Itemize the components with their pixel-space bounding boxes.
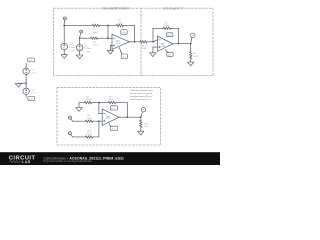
svg-text:1 Vpp: 1 Vpp bbox=[69, 50, 75, 52]
node F2 fb corner junction bbox=[178, 43, 180, 45]
ground GND8 bbox=[138, 131, 144, 135]
resistor R4 bbox=[140, 41, 147, 43]
wire V2 stem bbox=[79, 38, 81, 44]
wire fb corner down to output bbox=[126, 103, 128, 118]
node H supply midpoint junction bbox=[25, 82, 27, 84]
wire midpoint to ground bbox=[19, 82, 27, 84]
comment text block bottom box bbox=[130, 89, 154, 101]
wire V4 to supply flag bbox=[25, 95, 27, 98]
node I junction bbox=[98, 102, 100, 104]
svg-text:tensao venda: ab. param: tensao venda: ab. param bbox=[130, 92, 152, 95]
wire R6 to ground bbox=[190, 59, 192, 62]
ground GND4 bbox=[150, 53, 156, 57]
wire node B to R2 bbox=[80, 37, 91, 39]
op-amp OA1 bbox=[112, 34, 129, 49]
OA2 V+ power flag +2.5V bbox=[165, 33, 173, 39]
node D junction bbox=[107, 37, 109, 39]
node G output junction bbox=[190, 43, 192, 45]
wire OA2 output bbox=[173, 43, 191, 45]
wire flag to V3 bbox=[25, 63, 27, 68]
svg-text:OP37: OP37 bbox=[160, 46, 166, 48]
wire output to R11 bbox=[140, 117, 142, 120]
node J junction bbox=[98, 120, 100, 122]
wire R5 to fb2 corner bbox=[171, 27, 179, 29]
node flag A (input 1) bbox=[63, 17, 66, 25]
wire flag D to R10 bbox=[72, 136, 85, 138]
resistor R7 bbox=[85, 101, 92, 103]
dashed box B "circuit gain" bbox=[141, 8, 213, 75]
wire flag C to R9 bbox=[72, 120, 85, 122]
svg-text:OP37: OP37 bbox=[116, 43, 122, 45]
resistor R11 load bbox=[140, 120, 142, 127]
wire OA2 + input to ground bbox=[153, 47, 158, 53]
wire node I down to inverting input bbox=[99, 103, 102, 114]
wire V2 to ground bbox=[79, 51, 81, 55]
svg-text:750Ω: 750Ω bbox=[141, 48, 147, 50]
supply flag +2.5V callout bbox=[26, 58, 34, 63]
wire OA1 output to R4 bbox=[129, 41, 139, 43]
voltage source V2 bbox=[76, 44, 83, 51]
resistor R8 feedback bbox=[108, 101, 115, 103]
wire R4 to OA2 inverting input bbox=[147, 41, 153, 43]
resistor R10 bbox=[86, 136, 93, 138]
dashed box A "Bandwidth limited" bbox=[54, 8, 142, 75]
svg-text:Bandwidth limited: Bandwidth limited bbox=[103, 6, 129, 10]
node flag OUT2 bbox=[141, 108, 146, 117]
wire R11 to ground bbox=[140, 128, 142, 132]
OA1 V- power flag -2.5V bbox=[119, 47, 127, 58]
node C junction (summing fb tap) bbox=[107, 25, 109, 27]
node flag VOUT bbox=[191, 33, 195, 43]
svg-text:750Ω: 750Ω bbox=[87, 134, 93, 136]
svg-text:50Ω: 50Ω bbox=[193, 56, 197, 58]
svg-text:1 Vpp: 1 Vpp bbox=[84, 51, 90, 53]
node flag D (bottom in 2) bbox=[68, 132, 72, 137]
ground GND5 bbox=[188, 62, 194, 66]
OA3 V- power flag -2.5V bbox=[109, 123, 118, 131]
wire fb2 top run bbox=[153, 27, 163, 29]
wire fb2 riser bbox=[152, 28, 154, 41]
node A junction bbox=[63, 25, 65, 27]
node K fb junction bbox=[127, 116, 129, 118]
wire node C down to inverting node bbox=[107, 25, 109, 38]
svg-text:Subtador electronico para: Subtador electronico para bbox=[130, 89, 154, 92]
wire R7 to node I bbox=[92, 102, 109, 104]
resistor R3 feedback bbox=[116, 24, 123, 26]
svg-text:50Ω: 50Ω bbox=[144, 126, 148, 128]
resistor R5 feedback 2 bbox=[163, 27, 170, 29]
svg-text:2.5 V: 2.5 V bbox=[31, 93, 37, 95]
op-amp OA2 bbox=[157, 36, 172, 51]
wire OA3 output bbox=[119, 116, 141, 118]
footer bar bbox=[0, 152, 220, 165]
OA3 V+ power flag +2.5V bbox=[109, 106, 118, 112]
svg-text:LAB: LAB bbox=[22, 160, 31, 164]
node B junction bbox=[79, 37, 81, 39]
wire R2 to op-amp inverting input bbox=[98, 37, 112, 39]
svg-text:2.5 V: 2.5 V bbox=[31, 73, 37, 75]
ground GND6 bbox=[15, 83, 21, 87]
svg-text:750Ω: 750Ω bbox=[117, 22, 123, 24]
svg-text:750Ω: 750Ω bbox=[108, 99, 114, 101]
footer logo LAB bbox=[9, 160, 21, 162]
node flag B (input 2) bbox=[80, 30, 83, 37]
svg-text:750Ω: 750Ω bbox=[93, 32, 99, 34]
wire V3 to midpoint bbox=[25, 74, 27, 88]
wire V1 stem bbox=[63, 25, 65, 43]
svg-text:http://circuitlab.com/c/9pcba6: http://circuitlab.com/c/9pcba6u8e3qt bbox=[44, 159, 92, 163]
wire R10 up to + node bbox=[93, 121, 99, 137]
svg-text:configurar ajuste (IN) da: configurar ajuste (IN) da bbox=[130, 95, 152, 98]
resistor R1 bbox=[92, 24, 99, 26]
ground GND3 bbox=[107, 50, 113, 54]
resistor R6 load bbox=[190, 52, 192, 59]
wire gnd riser to top row bbox=[79, 103, 85, 108]
ground GND1 bbox=[61, 55, 67, 59]
wire R9 to + input bbox=[93, 120, 103, 122]
wire fb2 corner down bbox=[177, 28, 179, 43]
OA1 V+ power flag +2.5V bbox=[119, 30, 127, 37]
resistor R9 bbox=[86, 120, 93, 122]
voltage source V1 bbox=[61, 43, 68, 50]
ground GND7 (fb divider) bbox=[76, 108, 82, 112]
voltage source V3 bbox=[23, 68, 29, 74]
node L output junction bbox=[140, 116, 142, 118]
dashed box C bottom subtractor bbox=[57, 88, 161, 145]
svg-text:OP37: OP37 bbox=[106, 118, 112, 120]
ground GND2 bbox=[76, 55, 82, 59]
node F junction fb2 tap bbox=[152, 41, 154, 43]
OA2 V- power flag -2.5V bbox=[165, 49, 173, 56]
node E output OA1 junction bbox=[134, 41, 136, 43]
op-amp OA3 bbox=[102, 109, 119, 125]
svg-text:750Ω: 750Ω bbox=[92, 45, 98, 47]
wire output to RL bbox=[190, 44, 192, 52]
supply flag -2.5V callout bbox=[26, 97, 34, 101]
svg-text:750Ω: 750Ω bbox=[164, 25, 170, 27]
wire R3 to corner bbox=[123, 24, 134, 26]
svg-text:750Ω: 750Ω bbox=[86, 99, 92, 101]
voltage source V4 bbox=[23, 88, 29, 94]
wire V1 to ground bbox=[63, 50, 65, 55]
svg-text:750Ω: 750Ω bbox=[87, 118, 93, 120]
svg-text:circuit gain= 2: circuit gain= 2 bbox=[163, 6, 184, 10]
svg-text:para be parametre 4 e 2: para be parametre 4 e 2 bbox=[130, 98, 152, 101]
resistor R2 bbox=[91, 37, 98, 39]
wire R8 to fb corner bbox=[116, 102, 128, 104]
node flag C (bottom in 1) bbox=[68, 116, 72, 121]
wire R1 to node C bbox=[100, 24, 116, 26]
wire OA1 + input to ground bbox=[110, 46, 112, 51]
wire feedback corner down to output bbox=[134, 25, 136, 41]
wire node A to R1 bbox=[64, 24, 92, 26]
